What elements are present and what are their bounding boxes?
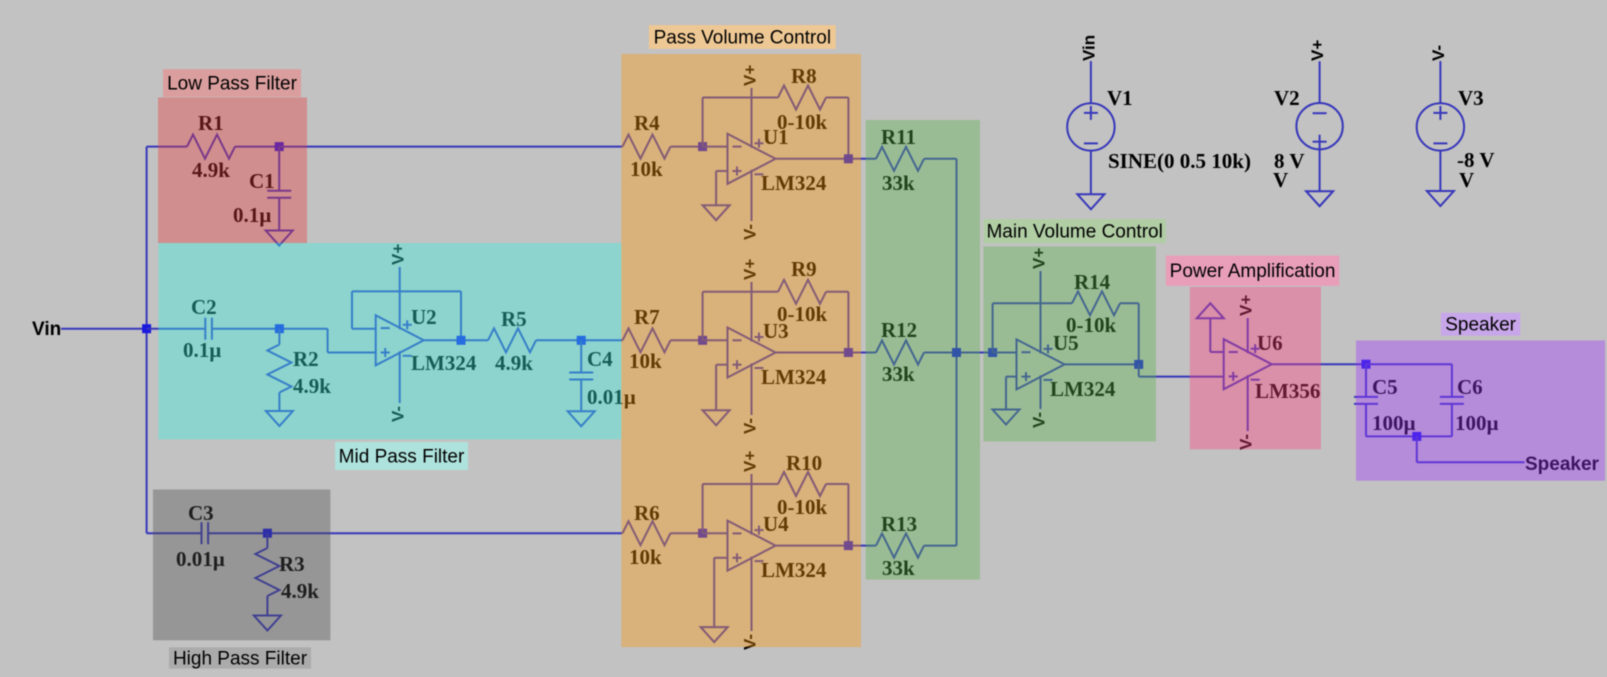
wire U4 feedback top bbox=[703, 483, 778, 485]
wire U2 - input stub bbox=[352, 328, 376, 330]
wire R9 to feedback corner bbox=[826, 291, 848, 293]
node U5 inverting input junction bbox=[988, 348, 997, 357]
wire summing bus vertical bbox=[956, 159, 958, 546]
node U4 inverting input junction bbox=[698, 529, 707, 538]
resistor R3 bbox=[255, 548, 319, 603]
wire U3 feedback top bbox=[703, 291, 778, 293]
node C5 top junction bbox=[1362, 360, 1371, 369]
svg-text:V1: V1 bbox=[1107, 86, 1133, 110]
svg-text:Vin: Vin bbox=[32, 319, 61, 340]
svg-text:V2: V2 bbox=[1274, 86, 1300, 110]
wire input bus to R1 bbox=[147, 146, 187, 148]
wire U2 feedback top bbox=[352, 290, 461, 292]
wire C4 bottom lead bbox=[580, 380, 582, 412]
title Pass Volume Control bbox=[649, 25, 836, 49]
wire U1 + input stub bbox=[716, 170, 727, 172]
wire into U3 - input bbox=[703, 339, 728, 341]
ground at U1 + input bbox=[703, 205, 730, 220]
wire U1 output to R11 bbox=[776, 158, 877, 160]
ground at U3 + input bbox=[703, 410, 730, 425]
wire U5 to U6 + input bbox=[1139, 376, 1224, 378]
wire R3 top lead bbox=[266, 533, 268, 548]
wire U6 - input stub bbox=[1210, 351, 1223, 353]
svg-text:Mid Pass Filter: Mid Pass Filter bbox=[339, 447, 465, 468]
title Main Volume Control bbox=[983, 219, 1166, 243]
svg-text:Low Pass Filter: Low Pass Filter bbox=[167, 74, 298, 95]
node U1 output bbox=[844, 154, 853, 163]
wire R3 bottom lead bbox=[266, 596, 268, 616]
op-amp U4 bbox=[728, 474, 776, 631]
svg-text:Pass Volume Control: Pass Volume Control bbox=[654, 28, 831, 49]
wire V2 top lead bbox=[1319, 61, 1321, 103]
wire U1 feedback top left bbox=[703, 97, 778, 99]
wire U5 + input stub bbox=[1006, 376, 1017, 378]
wire U6 output to speaker bbox=[1272, 363, 1366, 365]
capacitor C4 bbox=[569, 347, 636, 409]
wire U4 feedback left vertical bbox=[702, 484, 704, 533]
node R1/C1 junction bbox=[275, 142, 284, 151]
wire R6 to U4 - node bbox=[671, 532, 703, 534]
overlay region Mid Pass Filter bbox=[158, 243, 621, 439]
wire R7 to U3 - node bbox=[671, 339, 703, 341]
overlay region High Pass Filter bbox=[153, 490, 330, 641]
wire R5 to C4/R7 bbox=[536, 339, 623, 341]
wire C5/C6 top rail bbox=[1366, 363, 1452, 365]
wire into U1 - input bbox=[703, 146, 728, 148]
title High Pass Filter bbox=[169, 647, 311, 669]
node input junction (Vin) bbox=[142, 324, 151, 333]
ground below C1 bbox=[266, 231, 293, 246]
wire U3 feedback right vertical bbox=[847, 292, 849, 353]
ground below R2 bbox=[266, 411, 293, 426]
wire U5 feedback right vertical bbox=[1138, 303, 1140, 364]
wire R1 to C1 node bbox=[235, 146, 279, 148]
node C2/R2 junction bbox=[275, 324, 284, 333]
wire U3 + input stub bbox=[716, 364, 727, 366]
wire U4 + input stub bbox=[714, 557, 727, 559]
node U3 output bbox=[844, 348, 853, 357]
resistor R13 bbox=[876, 512, 924, 580]
ground (rotated) at U6 - input bbox=[1197, 303, 1224, 318]
ground at U5 + input bbox=[993, 410, 1020, 425]
wire U4 feedback right vertical bbox=[847, 484, 849, 546]
ground at U4 + input bbox=[701, 627, 728, 642]
wire U5 output bbox=[1065, 363, 1139, 365]
resistor R1 bbox=[187, 111, 235, 182]
wire U4 + input to ground bbox=[713, 558, 715, 627]
resistor R9 bbox=[777, 257, 827, 326]
svg-text:V+: V+ bbox=[1308, 40, 1327, 61]
svg-text:V: V bbox=[1273, 168, 1288, 192]
wire U2 feedback right vertical bbox=[460, 291, 462, 340]
wire R13 to bus corner bbox=[924, 545, 957, 547]
node U5 output bbox=[1134, 360, 1143, 369]
wire U5 + input to ground bbox=[1005, 377, 1007, 410]
svg-text:Power Amplification: Power Amplification bbox=[1170, 261, 1336, 282]
capacitor C6 bbox=[1440, 375, 1499, 435]
svg-text:SINE(0 0.5 10k): SINE(0 0.5 10k) bbox=[1108, 149, 1251, 173]
ground below V2 bbox=[1306, 191, 1333, 206]
wire speaker stub down bbox=[1416, 436, 1418, 462]
svg-text:V: V bbox=[1459, 168, 1474, 192]
op-amp U3 bbox=[728, 282, 776, 415]
wire step down to U2 + input (horiz) bbox=[328, 352, 376, 354]
overlay region Power Amplification bbox=[1190, 287, 1321, 449]
wire U3 output to R12 bbox=[776, 352, 877, 354]
svg-text:Speaker: Speaker bbox=[1445, 315, 1516, 336]
resistor R12 bbox=[876, 318, 924, 386]
wire C3 to R3 node and onward bbox=[208, 532, 622, 534]
resistor R11 bbox=[876, 125, 924, 195]
wire R10 to feedback corner bbox=[826, 483, 848, 485]
op-amp U2 bbox=[376, 267, 424, 403]
wire to Speaker net label bbox=[1417, 461, 1525, 463]
voltage source V3 bbox=[1417, 103, 1464, 150]
overlay region summing resistors bbox=[866, 120, 980, 580]
wire R12 row to U5 node bbox=[924, 352, 993, 354]
capacitor C5 bbox=[1354, 375, 1416, 435]
wire U2 feedback left vertical bbox=[351, 291, 353, 328]
svg-text:V-: V- bbox=[1429, 45, 1448, 61]
wire C2 to R2 node and onward bbox=[212, 328, 328, 330]
wire U1 feedback right vertical bbox=[847, 98, 849, 159]
wire V1 bottom lead bbox=[1090, 151, 1092, 195]
wire C6 bottom lead bbox=[1451, 404, 1453, 437]
wire V2 bottom lead bbox=[1319, 149, 1321, 191]
wire V3 top lead bbox=[1439, 61, 1441, 103]
overlay region Pass Volume Control bbox=[621, 54, 861, 647]
resistor R6 bbox=[623, 501, 671, 569]
wire speaker bottom rail bbox=[1366, 435, 1452, 437]
svg-text:Vin: Vin bbox=[1079, 35, 1098, 61]
capacitor C2 bbox=[183, 295, 221, 362]
wire C5 bottom lead bbox=[1365, 404, 1367, 437]
op-amp U6 bbox=[1224, 318, 1272, 431]
wire input bus corner to C3 bbox=[147, 532, 202, 534]
wire V3 bottom lead bbox=[1439, 151, 1441, 191]
node U4 output bbox=[844, 541, 853, 550]
wire vertical input bus x=146.6 bbox=[146, 147, 148, 534]
wire low-pass long run to R4 bbox=[279, 146, 622, 148]
wire R8 to feedback corner bbox=[826, 97, 848, 99]
svg-text:Main Volume Control: Main Volume Control bbox=[986, 222, 1162, 243]
wire Vin lead to junction bbox=[61, 328, 147, 330]
wire R14 to feedback corner bbox=[1120, 302, 1139, 304]
title Power Amplification bbox=[1166, 256, 1340, 286]
wire R11 to bus corner bbox=[924, 158, 957, 160]
node U3 inverting input junction bbox=[698, 336, 707, 345]
resistor R10 bbox=[777, 451, 827, 519]
wire V1 top lead bbox=[1090, 61, 1092, 103]
wire C4 top lead bbox=[580, 340, 582, 372]
resistor R5 bbox=[488, 307, 536, 375]
wire into U5 - input bbox=[993, 352, 1017, 354]
overlay region Low Pass Filter bbox=[158, 98, 307, 244]
title Low Pass Filter bbox=[163, 69, 301, 97]
ground below R3 bbox=[254, 616, 281, 631]
wire U5 feedback top bbox=[993, 302, 1072, 304]
node R5/C4 junction bbox=[577, 336, 586, 345]
node speaker rail junction bbox=[1412, 432, 1421, 441]
wire U3 feedback left vertical bbox=[702, 292, 704, 341]
title Mid Pass Filter bbox=[335, 442, 468, 470]
wire U1 + input to ground bbox=[715, 171, 717, 205]
ground below V1 bbox=[1077, 194, 1104, 209]
wire U3 + input to ground bbox=[715, 365, 717, 411]
wire step down to U2 + input (vert) bbox=[327, 329, 329, 353]
wire U4 output to R13 bbox=[776, 545, 877, 547]
resistor R7 bbox=[623, 305, 671, 373]
resistor R2 bbox=[267, 345, 331, 399]
node summing bus junction bbox=[952, 348, 961, 357]
capacitor C1 bbox=[233, 169, 291, 227]
node C3/R3 junction bbox=[263, 529, 272, 538]
resistor R8 bbox=[777, 64, 827, 134]
svg-text:V3: V3 bbox=[1458, 86, 1484, 110]
wire R2 top lead bbox=[278, 329, 280, 345]
voltage source V1 bbox=[1067, 103, 1114, 150]
title Speaker bbox=[1441, 313, 1520, 336]
overlay region Main Volume Control bbox=[983, 246, 1156, 441]
voltage source V2 bbox=[1296, 103, 1342, 149]
wire C5 top lead bbox=[1365, 364, 1367, 397]
node U1 inverting input junction bbox=[698, 142, 707, 151]
ground below C4 bbox=[568, 411, 595, 426]
wire U5 output drop bbox=[1138, 364, 1140, 376]
wire R4 to U1 - node bbox=[671, 146, 703, 148]
wire Vin junction to C2 bbox=[147, 328, 206, 330]
wire U5 feedback left vertical bbox=[992, 303, 994, 352]
wire U1 feedback left vertical bbox=[702, 98, 704, 147]
wire C1 bottom lead bbox=[278, 198, 280, 231]
overlay region Speaker bbox=[1356, 340, 1605, 480]
capacitor C3 bbox=[176, 501, 225, 571]
wire U6 - input up bbox=[1209, 318, 1211, 352]
op-amp U1 bbox=[728, 88, 776, 221]
wire into U4 - input bbox=[703, 532, 728, 534]
node U2 output bbox=[457, 336, 466, 345]
resistor R14 bbox=[1066, 270, 1120, 337]
wire U2 output to R5 bbox=[424, 339, 488, 341]
wire R2 bottom lead bbox=[278, 393, 280, 412]
wire C6 top lead bbox=[1451, 364, 1453, 397]
svg-text:High Pass Filter: High Pass Filter bbox=[173, 648, 308, 669]
resistor R4 bbox=[623, 111, 671, 181]
wire C1 top lead bbox=[278, 147, 280, 191]
op-amp U5 bbox=[1017, 271, 1065, 409]
ground below V3 bbox=[1427, 191, 1454, 206]
